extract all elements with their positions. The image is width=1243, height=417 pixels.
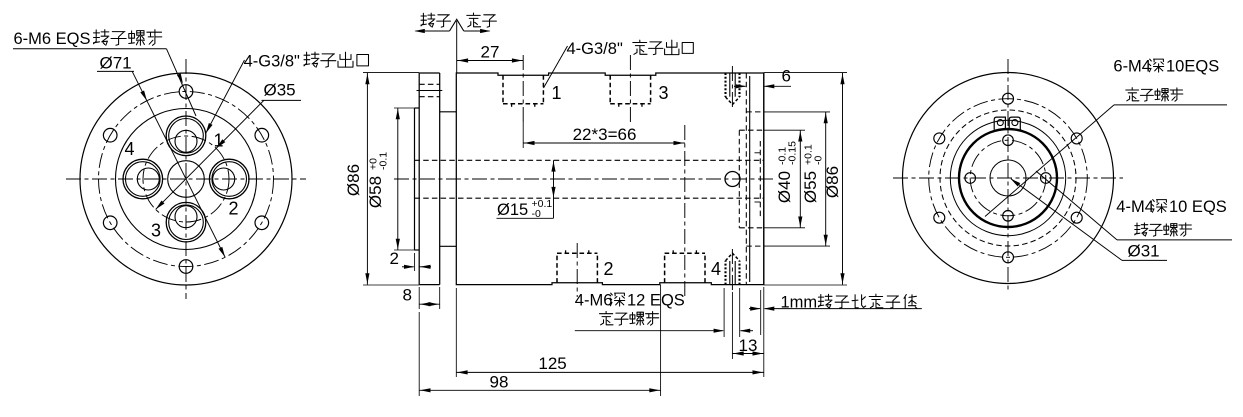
left view bolt circle D71 (dash-dot) [99,92,274,267]
bottom plug centerline [731,249,733,290]
note stator thread text [600,311,614,324]
M6 bolt hole 5 at 270 deg [179,260,193,274]
svg-text:27: 27 [481,43,500,62]
label 4-M4 underline [1117,239,1232,241]
label D31 leader [1011,179,1122,261]
recess D55 hidden bottom [746,245,764,247]
arrow D31 leader at center [1009,177,1020,187]
dim line D71 through center [132,71,225,257]
arrow 6-M6 leader at bolt hole [177,73,185,84]
dim D15 underline [497,217,554,219]
dim D86 left text [344,164,363,196]
dim D55 text [801,144,825,203]
dim D86 left ext top [363,72,419,74]
stator body outline with port notches [456,73,764,285]
dim D86 left line [366,73,368,285]
svg-text:13: 13 [739,336,758,355]
recess D55 ext top [764,111,830,113]
stator port 3 centerline [629,55,631,122]
right view circle D47 [950,120,1065,235]
top plug inner solid lines [729,73,731,97]
tab right pin circle [1012,120,1018,126]
svg-text:3: 3 [659,83,669,103]
svg-text:3: 3 [151,221,161,241]
flange plate top edge [419,72,440,74]
label 4-G3/8 rotor leader to port 1 [206,60,245,133]
M4 stator hole 5 at 270 deg [1003,252,1014,263]
dim D40 line [799,130,801,228]
bottom plug drill tip dashed [726,253,740,261]
dim D40 text [775,141,799,203]
label rotor thread text [1135,223,1148,236]
svg-text:Ø40: Ø40 [775,171,794,203]
dim 2 arrows [402,266,414,268]
svg-text:-0.1: -0.1 [378,152,390,170]
tab left pin circle [997,120,1003,126]
M6 bolt hole 4 at 210 deg [103,216,117,230]
pin hole circle [725,172,740,187]
dim D55 line [825,112,827,246]
right view hidden circle D55 [940,110,1076,246]
rotor face ext line [760,290,762,335]
dim 8 ext right [439,287,441,309]
svg-text:6: 6 [782,67,791,86]
rotor-stator divider caret [450,19,464,31]
svg-text:2: 2 [229,199,239,219]
label 4-M4 leader [1036,171,1117,240]
port 1 centerline extension for dims [522,122,524,148]
M4 stator hole 2 at 30 deg [1071,133,1082,144]
spigot bottom edge [415,249,420,251]
right view thick rotor boss circle [959,129,1057,227]
svg-text:22*3=66: 22*3=66 [573,125,637,144]
stator face ext line [763,287,765,377]
svg-text:-0: -0 [813,156,825,165]
svg-text:12 EQS: 12 EQS [627,292,685,310]
flange plate bottom edge [419,284,440,286]
dim 6 arrows [734,85,746,87]
top plug drill tip dashed [726,97,740,105]
anti-rotation tab left [994,117,1005,130]
M6 flange hole axis [417,90,443,92]
dim 8 ext left [418,287,420,309]
dim D86 left ext bottom [363,284,419,286]
top plug thread hidden zigzag [724,73,726,97]
G3/8 rotor port 1 top: thread circles and drill circle [166,116,206,156]
text stator (dingzi) [467,13,481,27]
bottom plug inner solid lines [729,261,731,285]
stator port 2 centerline [576,243,578,297]
left view center bore circle D15 [168,161,205,198]
dim 13 line [732,353,763,355]
recess D40 hidden wall [738,130,740,228]
label stator thread text [1126,88,1139,101]
M6 bolt hole 6 at 330 deg [255,216,269,230]
left view outer flange circle D86 [80,73,292,285]
svg-text:4-G3/8": 4-G3/8" [244,53,300,71]
body bottom edge ext to D86 dim [764,284,847,286]
G3/8 rotor port 2 right: thread circles and drill circle [209,159,249,199]
G3/8 rotor port 3 bottom: thread circles and drill circle [166,202,206,242]
plug thread ext lines [723,288,725,337]
arrow D71 upper crossing [140,90,148,101]
stator port 1 G3/8 thread hidden lines [503,75,543,108]
M6 bolt hole 2 at 30 deg [255,128,269,142]
dim D58 line [397,108,399,250]
right view rotor bolt circle D31 (dash-dot) [970,140,1046,216]
stator port 4 centerline long [684,125,686,298]
dim D86 right line [842,73,844,285]
svg-text:98: 98 [490,373,509,392]
neck D55 top edge [440,111,457,113]
svg-text:Ø15: Ø15 [497,201,528,219]
svg-text:6-M6 EQS: 6-M6 EQS [14,30,91,48]
top plug centerline [731,66,733,108]
rotor face groove edge upper [755,152,761,154]
svg-text:Ø35: Ø35 [264,81,296,100]
svg-text:4-G3/8": 4-G3/8" [567,40,623,58]
svg-text:-0: -0 [532,208,541,220]
svg-text:4-M4: 4-M4 [1116,198,1154,216]
svg-text:6-M4: 6-M4 [1113,58,1151,76]
anti-rotation tab right [1009,117,1020,130]
svg-text:10EQS: 10EQS [1166,58,1219,76]
dim D58 ext bottom [394,249,415,251]
bottom plug thread hidden zigzag [724,261,726,285]
dim 27 line [457,60,524,62]
M4 rotor hole 4 at 180 deg [965,173,976,184]
M4 rotor hole 2 at 0 deg [1041,173,1052,184]
spigot top edge [415,107,420,109]
bore D15 hidden line lower [415,197,764,199]
left view rotor spigot circle D58 [116,109,257,250]
stator port 1 centerline [522,55,524,122]
M6 bolt hole 3 at 150 deg [103,128,117,142]
right view horizontal centerline [893,177,1123,179]
stator end face [763,73,765,285]
svg-text:2: 2 [604,259,614,279]
recess D55 ext bottom [764,245,830,247]
svg-text:4: 4 [711,259,721,279]
label D71 underline [97,70,134,72]
label 6-M6 leader to top bolt hole [167,49,197,116]
dim 22*3=66 line [523,142,685,144]
dim 125 line [456,371,764,373]
divider vertical line [456,21,458,73]
stator port 3 G3/8 thread hidden lines [610,75,650,108]
M4 rotor hole 3 at 270 deg [1003,211,1014,222]
label 6-M6 underline [13,48,167,50]
recess D40 ext top [764,129,805,131]
G3/8 rotor port 4 left: thread circles and drill circle [123,159,163,199]
svg-text:125: 125 [538,354,566,373]
label 4-G3/8 stator leader [544,46,568,88]
rotor flange plate right face [439,73,441,285]
svg-text:Ø86: Ø86 [344,164,363,196]
M6 flange hole hidden line lower [419,96,440,98]
M4 stator hole 1 at 90 deg [1003,93,1014,104]
svg-text:Ø58: Ø58 [366,176,385,208]
arrow D71 lower crossing [219,247,227,258]
svg-text:2: 2 [390,249,399,268]
dim D58 ext top [394,107,415,109]
dim 125 left ext [455,288,457,377]
label 6-M4 leader [985,105,1114,217]
dim D86 right text [823,166,842,198]
svg-text:8: 8 [403,286,412,305]
dim D58 text [366,152,390,208]
recess D40 ext bottom [764,227,805,229]
right view outer circle D86 [903,73,1114,284]
M4 stator hole 3 at 150 deg [934,133,945,144]
text rotor (zhuanzi) [421,13,435,27]
main axis centerline [394,178,774,180]
cap joint solid line [749,76,751,282]
svg-text:Ø31: Ø31 [1128,242,1160,261]
svg-text:Ø55: Ø55 [801,171,820,203]
dim 13 plug axis ext [731,292,733,359]
right view vertical centerline [1007,59,1009,291]
dim 98 line [419,389,660,391]
recess D55 hidden top [746,111,764,113]
dim 98 left ext [418,312,420,396]
recess D40 hidden top [739,129,764,131]
svg-text:10 EQS: 10 EQS [1169,198,1227,216]
svg-text:1: 1 [552,83,562,103]
note 4-M6 underline-leader to M6 plug [575,330,724,332]
neck D55 bottom edge [440,245,457,247]
plug thread dim right arrow [741,330,754,332]
arrow D35 upper crossing [215,139,225,149]
dim D15 vertical line [553,160,555,218]
svg-text:4-M6: 4-M6 [575,292,613,310]
left view port pitch circle D35 (dash-dot) [143,136,229,222]
left view vertical centerline [185,59,187,299]
M4 stator hole 6 at 330 deg [1071,212,1082,223]
body top edge ext to D86 dim [764,72,847,74]
stator port 2 G3/8 thread hidden lines [557,249,597,283]
M6 flange hole hidden line upper [419,83,440,85]
svg-text:Ø71: Ø71 [100,54,132,73]
stator arrow line [464,30,490,32]
svg-text:-0.15: -0.15 [787,141,799,165]
label 6-M4 underline [1114,104,1227,106]
note 1mm left arrow [749,308,760,310]
rotor face groove edge lower [755,201,761,203]
right view bolt circle 6-M4 (dash-dot) [929,99,1088,258]
stator port 4 G3/8 thread hidden lines [665,249,705,283]
left view horizontal centerline [66,178,306,180]
arrow D35 lower crossing [154,200,164,210]
rotor flange plate left face [418,73,420,285]
bore D15 hidden line upper [415,159,764,161]
dim line D35 through center [156,100,264,209]
note 1mm underline-leader [765,308,922,310]
arrow 4-G3/8 rotor leader [204,123,213,134]
M4 rotor hole 1 at 90 deg [1003,135,1014,146]
label D35 underline [262,99,302,101]
dim 98 right ext line [660,285,662,396]
M6 bolt hole 1 at 90 deg [179,85,193,99]
dim 2 ext line [414,253,416,271]
cap joint hidden line [745,73,747,285]
rotor end face hidden (1mm lower) [759,141,761,217]
svg-text:4: 4 [125,139,135,159]
right view center bore circle [990,160,1026,196]
dim 8 line [419,303,440,305]
label D31 underline [1122,259,1167,261]
rotor arrow line [416,30,450,32]
rotor spigot face D58 [414,108,416,250]
recess D40 hidden bottom [739,227,764,229]
M4 stator hole 4 at 210 deg [934,212,945,223]
